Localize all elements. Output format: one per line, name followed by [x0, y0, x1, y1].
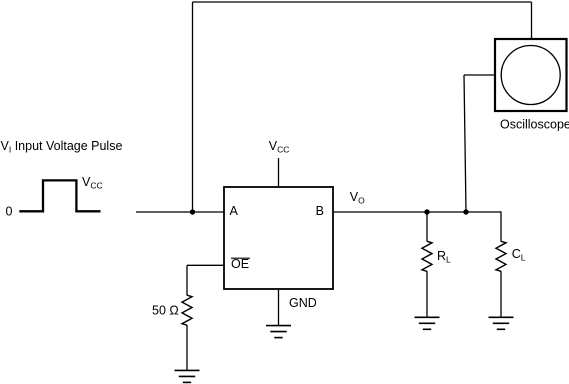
ground (chip) [266, 326, 291, 338]
wire oscilloscope left probe horizontal [464, 74, 495, 76]
oscilloscope screen circle [501, 46, 560, 105]
input pulse waveform [19, 180, 100, 211]
svg-text:A: A [230, 204, 239, 218]
svg-text:0: 0 [6, 204, 13, 218]
wire oscilloscope probe vertical down to output node [464, 75, 466, 212]
svg-text:Oscilloscope: Oscilloscope [500, 118, 569, 132]
svg-text:B: B [316, 204, 324, 218]
wire OE down to 50 ohm resistor [186, 265, 188, 295]
wire corner down to CL [500, 211, 502, 241]
wire top horizontal to oscilloscope [193, 1, 532, 3]
oscilloscope box [495, 39, 567, 111]
wire CL to ground [500, 271, 502, 317]
node dot at scope probe [463, 209, 468, 214]
resistor RL zigzag [422, 241, 432, 271]
svg-text:VI Input Voltage Pulse: VI Input Voltage Pulse [1, 139, 123, 155]
wire OE pin horizontal [187, 264, 224, 266]
node dot at RL [424, 209, 429, 214]
resistor 50 ohm zigzag [182, 295, 192, 325]
capacitor CL (drawn as zigzag in source) [496, 241, 506, 271]
ground (CL) [489, 317, 514, 329]
svg-text:OE: OE [231, 257, 249, 271]
wire output B to CL corner [333, 211, 501, 213]
wire RL to ground [426, 271, 428, 317]
wire down to RL [426, 212, 428, 242]
wire GND stub from chip bottom [278, 289, 280, 326]
buffer chip U1 box [224, 187, 333, 289]
wire input horizontal into pin A [136, 211, 224, 213]
svg-text:50 Ω: 50 Ω [152, 304, 179, 318]
ground (50 ohm) [175, 370, 200, 382]
ground (RL) [415, 317, 440, 329]
node junction dot at input [190, 209, 195, 214]
svg-text:GND: GND [289, 296, 317, 310]
wire vertical riser from input node to top [192, 2, 194, 212]
wire resistor to ground [186, 325, 188, 370]
wire drop from top into oscilloscope [531, 2, 533, 40]
wire VCC stub into chip top [278, 158, 280, 187]
